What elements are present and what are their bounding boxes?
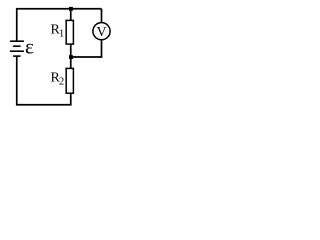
svg-text:V: V (96, 25, 106, 40)
wire: bottom rail (17, 104, 72, 106)
battery cell E: plate 4 (short, negative) (13, 55, 21, 57)
junction node: top of R1 branch (69, 7, 73, 11)
wire: mid rail from voltmeter to mid node (71, 56, 103, 58)
junction node: R1/R2/voltmeter (69, 55, 73, 59)
wire: drop from top rail to R1 (70, 9, 72, 21)
wire: top rail (16, 8, 102, 10)
battery cell E: plate 2 (short) (13, 45, 21, 47)
wire: mid node down to R2 (70, 57, 72, 69)
svg-text:R2: R2 (51, 71, 65, 88)
voltmeter V1 body (93, 23, 110, 40)
wire: voltmeter bottom lead (101, 40, 103, 58)
svg-text:R1: R1 (51, 23, 65, 40)
wire: battery positive up to top-left corner (16, 9, 18, 41)
wire: R2 bottom to bottom rail (70, 93, 72, 105)
battery cell E: plate 1 (long, positive) (10, 40, 24, 42)
resistor R2 (66, 68, 73, 93)
wire: voltmeter top lead (101, 9, 103, 23)
battery cell E: plate 3 (long) (10, 50, 24, 52)
resistor R1 (66, 20, 73, 44)
wire: R1 bottom to mid node (70, 44, 72, 57)
wire: bottom-left riser to battery negative (16, 56, 18, 106)
svg-text:ε: ε (25, 35, 34, 59)
